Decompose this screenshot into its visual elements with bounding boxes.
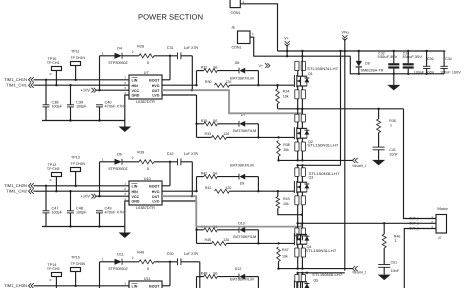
svg-text:LIN: LIN bbox=[132, 78, 138, 82]
pin LVG wire bbox=[162, 94, 197, 96]
svg-text:TIM1_CH1: TIM1_CH1 bbox=[6, 83, 28, 88]
svg-text:TP CH2N: TP CH2N bbox=[71, 162, 86, 166]
wire LVG2 down bbox=[196, 201, 198, 243]
wire V+ rail (top) bbox=[278, 50, 446, 52]
wire loop right vertical bbox=[257, 230, 259, 244]
transistor Q1 package pins (drain) bbox=[294, 61, 296, 70]
svg-text:VshuntH_1: VshuntH_1 bbox=[352, 164, 366, 168]
svg-text:1: 1 bbox=[252, 32, 254, 36]
svg-text:C30: C30 bbox=[427, 57, 433, 61]
wire OUT net phase 1 (highlighted) bbox=[162, 90, 302, 113]
svg-text:100pF: 100pF bbox=[52, 211, 63, 215]
svg-text:TIM1_CH3N: TIM1_CH3N bbox=[4, 283, 27, 288]
svg-text:100pF: 100pF bbox=[76, 105, 87, 109]
resistor R46 1 (snubber) bbox=[383, 223, 385, 234]
resistor R32 56 (loop branch) bbox=[197, 70, 204, 72]
svg-text:GND: GND bbox=[132, 94, 140, 98]
resistor R28 0 bbox=[139, 54, 154, 58]
wire phase 1 output to motor bbox=[404, 109, 437, 219]
svg-text:+10V: +10V bbox=[81, 88, 91, 93]
svg-text:TP CH1: TP CH1 bbox=[47, 61, 60, 65]
svg-text:R32: R32 bbox=[201, 66, 208, 70]
wire V+ feed down to phase2 drain bus bbox=[340, 51, 342, 165]
svg-text:OUT_3: OUT_3 bbox=[409, 227, 419, 231]
svg-text:D10: D10 bbox=[238, 221, 245, 225]
wire shunt bus 1 (VshuntH_1) bbox=[278, 159, 353, 161]
transistor Q1 package pins (source) bbox=[294, 90, 296, 99]
svg-text:1uF X7R: 1uF X7R bbox=[184, 46, 199, 50]
svg-text:HVG: HVG bbox=[152, 190, 160, 194]
svg-text:C61: C61 bbox=[391, 261, 398, 265]
svg-text:R41: R41 bbox=[205, 186, 212, 190]
svg-text:GND: GND bbox=[132, 200, 140, 204]
svg-text:R46: R46 bbox=[394, 235, 401, 239]
wire loop left vertical bbox=[196, 71, 198, 86]
svg-text:STL150N3LLH7: STL150N3LLH7 bbox=[307, 67, 338, 71]
wire bootstrap cap to OUT node bbox=[191, 162, 193, 196]
wire loop right vertical bbox=[257, 124, 259, 138]
wire Q3 source to switch 2 (R43 joins) bbox=[301, 205, 303, 224]
svg-text:1: 1 bbox=[102, 258, 104, 262]
capacitor C61 10nF bbox=[383, 248, 385, 265]
svg-text:VshuntH_2: VshuntH_2 bbox=[352, 270, 366, 274]
resistor R44 56 bbox=[197, 229, 204, 231]
svg-text:STL150N3LLH7: STL150N3LLH7 bbox=[307, 144, 338, 148]
transistor Q5 package pins (drain) bbox=[294, 275, 296, 282]
capacitor C41 10nF bbox=[378, 133, 380, 148]
resistor R47 10k (Q4 gate pulldown) bbox=[277, 247, 281, 262]
svg-text:1: 1 bbox=[395, 239, 397, 243]
svg-text:TP15: TP15 bbox=[71, 255, 80, 259]
capacitor C50 1uF X7R bbox=[177, 258, 179, 265]
svg-text:BOOT: BOOT bbox=[149, 284, 160, 288]
pin BOOT stub bbox=[162, 79, 170, 81]
resistor R42 56 (loop branch) bbox=[197, 176, 204, 178]
diode D6 SMBJ26A-TR (TVS) bbox=[358, 51, 360, 61]
wire to BOOT pin bbox=[169, 262, 171, 286]
svg-text:BAT30KFILM: BAT30KFILM bbox=[233, 235, 256, 239]
resistor R38 10k (Q2 gate pulldown) bbox=[277, 141, 281, 157]
junction TP13 to TIM1_CH2N bbox=[74, 185, 76, 187]
svg-text:STPS0560Z: STPS0560Z bbox=[108, 267, 128, 271]
svg-text:100pF: 100pF bbox=[52, 105, 63, 109]
svg-text:R39: R39 bbox=[137, 151, 144, 155]
wire LVG2 gate to Q4 bbox=[227, 242, 295, 244]
junction TP12 to TIM1_CH2 bbox=[55, 190, 57, 192]
capacitor C39 100pF bbox=[70, 85, 72, 105]
svg-text:R34: R34 bbox=[283, 89, 290, 93]
svg-text:V+: V+ bbox=[284, 36, 289, 40]
svg-text:D12: D12 bbox=[235, 267, 242, 271]
wire TIM1_CH3N bbox=[34, 285, 130, 287]
svg-text:10nF: 10nF bbox=[391, 269, 400, 273]
svg-text:OUT_2: OUT_2 bbox=[409, 221, 419, 225]
svg-text:BAT30KFILM: BAT30KFILM bbox=[230, 164, 254, 168]
wire phase 3 output to motor bbox=[404, 229, 436, 288]
resistor R45 120 bbox=[197, 242, 212, 244]
diode D5 STPS0560Z bbox=[100, 161, 115, 163]
capacitor C48 100pF bbox=[70, 191, 72, 211]
svg-text:R45: R45 bbox=[205, 238, 212, 242]
junction +10V / C riser bbox=[98, 89, 100, 91]
svg-text:STL150N3LLH7: STL150N3LLH7 bbox=[305, 249, 336, 253]
resistor R43 10k (Q3 gate pulldown) bbox=[276, 197, 280, 209]
wire +10V to VCC bbox=[96, 89, 129, 91]
node VshuntH_1 connector bbox=[353, 158, 356, 163]
svg-text:OUT_1: OUT_1 bbox=[409, 217, 419, 221]
wire Q3 drain bus bbox=[297, 164, 341, 166]
svg-text:R40: R40 bbox=[137, 251, 144, 255]
svg-text:R42: R42 bbox=[201, 172, 208, 176]
svg-text:CON1: CON1 bbox=[231, 11, 241, 15]
wire loop right vertical bbox=[257, 71, 259, 86]
diode D9 BAT30KFILM bbox=[239, 174, 245, 180]
ground bus bbox=[42, 120, 125, 122]
wire R43 bottom to switch node 2 bbox=[278, 208, 302, 215]
svg-text:100nF: 100nF bbox=[440, 70, 451, 74]
wire TIM1_CH1 bbox=[34, 84, 130, 86]
svg-text:C34: C34 bbox=[445, 57, 451, 61]
resistor R39 0 bbox=[139, 160, 154, 164]
svg-text:1uF X7R: 1uF X7R bbox=[184, 152, 199, 156]
wire bootstrap cap to OUT node bbox=[199, 262, 201, 288]
junction BOOT tap bbox=[169, 55, 171, 57]
pin BOOT stub bbox=[162, 185, 170, 187]
svg-text:Q5: Q5 bbox=[313, 278, 318, 282]
pin BOOT stub bbox=[162, 285, 170, 287]
svg-text:C50: C50 bbox=[167, 252, 174, 256]
resistor R41 120 (straight branch) bbox=[215, 189, 230, 193]
resistor R36 1 (snubber) bbox=[378, 109, 380, 119]
wire switch node 1 bbox=[278, 108, 404, 110]
wire riser +10V to bootstrap diode bbox=[99, 162, 101, 196]
wire TIM1_CH2 bbox=[34, 190, 130, 192]
wire HVG1 gate to Q1 bbox=[230, 84, 295, 86]
svg-text:10k: 10k bbox=[283, 202, 289, 206]
capacitor C40 470nF X7R bbox=[96, 104, 103, 106]
wire HVG2 gate to Q3 bbox=[230, 190, 295, 192]
svg-text:R28: R28 bbox=[137, 45, 144, 49]
svg-text:D8: D8 bbox=[235, 61, 240, 65]
svg-text:TP CH2: TP CH2 bbox=[47, 167, 60, 171]
svg-text:VCC: VCC bbox=[132, 89, 140, 93]
svg-text:Q3: Q3 bbox=[309, 176, 314, 180]
wire loop left vertical (cut) bbox=[196, 277, 198, 288]
pin HVG wire bbox=[162, 84, 197, 86]
capacitor C31 1uF X7R bbox=[177, 52, 179, 59]
pin HVG wire bbox=[162, 190, 197, 192]
ground (snubber 1) bbox=[378, 150, 380, 160]
svg-text:V+: V+ bbox=[259, 64, 264, 68]
wire GND pin down to ground bus bbox=[125, 201, 129, 227]
diode D12 BAT30KFILM bbox=[239, 274, 245, 280]
svg-text:TIM1_CH1N: TIM1_CH1N bbox=[4, 77, 27, 82]
svg-text:2: 2 bbox=[132, 50, 134, 54]
svg-text:R30: R30 bbox=[205, 80, 212, 84]
svg-text:D4: D4 bbox=[117, 46, 122, 50]
svg-text:10k: 10k bbox=[282, 255, 288, 259]
svg-text:STL150N3LLH7: STL150N3LLH7 bbox=[309, 172, 340, 176]
svg-text:10nF: 10nF bbox=[389, 152, 398, 156]
svg-text:C41: C41 bbox=[389, 148, 396, 152]
junction TP11 to TIM1_CH1N bbox=[74, 79, 76, 81]
ground bbox=[119, 127, 132, 133]
transistor Q2 STL150N3LLH7 low side phase 1 bbox=[293, 127, 295, 139]
ground bus bbox=[42, 226, 125, 228]
capacitor C38 100pF bbox=[45, 80, 47, 105]
svg-text:LIN: LIN bbox=[132, 184, 138, 188]
junction R43 top bbox=[277, 190, 279, 192]
svg-text:120: 120 bbox=[223, 238, 229, 242]
svg-text:1: 1 bbox=[102, 52, 104, 56]
svg-text:TIM1_CH2: TIM1_CH2 bbox=[6, 189, 28, 194]
capacitor C47 100pF bbox=[45, 186, 47, 211]
junction C42 to OUT bbox=[191, 195, 193, 197]
junction R47 top bbox=[277, 242, 279, 244]
svg-text:TP CH3: TP CH3 bbox=[47, 267, 60, 271]
svg-text:STPS0560Z: STPS0560Z bbox=[108, 61, 128, 65]
wire Q1 drain riser bbox=[301, 51, 303, 61]
wire switch node 2 bbox=[297, 222, 437, 224]
svg-text:L6387DTR: L6387DTR bbox=[136, 100, 155, 104]
svg-text:D9: D9 bbox=[240, 181, 245, 185]
wire VPxx / V+ feed down to phase3 drain bus bbox=[344, 39, 346, 271]
ground (cap bank) bbox=[393, 74, 395, 85]
junction +10V / C riser bbox=[98, 195, 100, 197]
svg-text:C31: C31 bbox=[167, 46, 174, 50]
wire +10V to VCC bbox=[96, 195, 129, 197]
wire Q5 drain bus bbox=[297, 272, 345, 274]
svg-text:R33: R33 bbox=[205, 132, 212, 136]
svg-text:10k: 10k bbox=[283, 94, 289, 98]
svg-text:R43: R43 bbox=[283, 197, 290, 201]
wire CON1 to V+ rail bbox=[240, 4, 277, 51]
capacitor C42 1uF X7R bbox=[177, 158, 179, 165]
junction R38 top bbox=[277, 136, 279, 138]
wire J6 to ground rail bbox=[250, 37, 350, 56]
resistor R33 120 bbox=[197, 136, 212, 138]
svg-text:56: 56 bbox=[213, 172, 217, 176]
junction TP15 to TIM1_CH3N bbox=[74, 285, 76, 287]
svg-text:LIN: LIN bbox=[132, 284, 138, 288]
svg-text:470nF X7R: 470nF X7R bbox=[105, 211, 125, 215]
svg-text:120: 120 bbox=[223, 132, 229, 136]
svg-text:56: 56 bbox=[213, 66, 217, 70]
wire ground rail to cap bus bbox=[350, 56, 444, 74]
svg-text:U7: U7 bbox=[144, 71, 149, 75]
svg-text:100pF: 100pF bbox=[76, 211, 87, 215]
svg-text:56: 56 bbox=[213, 272, 217, 276]
transistor Q3 package pins (drain) bbox=[294, 168, 296, 177]
svg-text:2: 2 bbox=[132, 156, 134, 160]
svg-text:STL150N3LLH7: STL150N3LLH7 bbox=[312, 273, 342, 277]
pin LVG wire bbox=[162, 200, 197, 202]
svg-text:J6: J6 bbox=[231, 25, 235, 29]
svg-text:1: 1 bbox=[390, 123, 392, 127]
svg-text:TP CH3N: TP CH3N bbox=[71, 262, 86, 266]
svg-text:VPxx: VPxx bbox=[342, 30, 350, 34]
svg-text:HIN: HIN bbox=[132, 190, 139, 194]
svg-text:330uF,35V: 330uF,35V bbox=[402, 55, 423, 59]
transistor Q1 STL150N3LLH7 high side phase 1 bbox=[293, 75, 295, 87]
svg-text:POWER SECTION: POWER SECTION bbox=[138, 13, 203, 22]
op-amp U driver U7 L6387DTR bbox=[129, 75, 162, 99]
junction BOOT tap bbox=[169, 261, 171, 263]
svg-text:Motor: Motor bbox=[437, 207, 448, 211]
svg-text:BAT30KFILM: BAT30KFILM bbox=[230, 277, 254, 281]
svg-text:TIM1_CH2N: TIM1_CH2N bbox=[4, 183, 27, 188]
svg-text:+10V: +10V bbox=[81, 194, 91, 199]
diode D10 BAT30KFILM bbox=[239, 227, 245, 233]
svg-text:120: 120 bbox=[225, 186, 231, 190]
svg-text:R38: R38 bbox=[283, 143, 290, 147]
diode D7 BAT30KFILM bbox=[239, 121, 245, 127]
transistor Q3 package pins (source) bbox=[294, 196, 296, 205]
svg-text:Q1: Q1 bbox=[308, 72, 313, 76]
svg-text:100V: 100V bbox=[452, 70, 462, 74]
transistor Q5 (partial, cut at bottom) bbox=[293, 281, 295, 288]
svg-text:VCC: VCC bbox=[132, 195, 140, 199]
svg-text:LVG: LVG bbox=[152, 94, 159, 98]
wire LVG1 down bbox=[196, 95, 198, 137]
junction R34 top bbox=[276, 84, 278, 86]
wire OUT net phase 2 (highlighted) bbox=[162, 196, 302, 226]
svg-text:470nF X7R: 470nF X7R bbox=[105, 105, 125, 109]
wire R34 to switch node bbox=[277, 104, 279, 109]
svg-text:100nF: 100nF bbox=[414, 70, 425, 74]
ground (snubber 2) bbox=[383, 267, 385, 274]
ground bbox=[119, 233, 132, 239]
svg-text:D6: D6 bbox=[365, 62, 370, 66]
svg-text:BAT30KFILM: BAT30KFILM bbox=[230, 76, 254, 80]
connector J5 CON1 (V+) bbox=[230, 0, 240, 8]
svg-text:CON1: CON1 bbox=[232, 46, 242, 50]
wire loop right vertical (cut) bbox=[257, 277, 259, 288]
resistor R40 0 bbox=[139, 260, 154, 264]
svg-text:R35: R35 bbox=[201, 119, 208, 123]
svg-text:TP13: TP13 bbox=[71, 155, 80, 159]
resistor R35 56 bbox=[197, 123, 204, 125]
junction C31 to OUT bbox=[191, 89, 193, 91]
svg-text:56: 56 bbox=[213, 119, 217, 123]
svg-text:HIN: HIN bbox=[132, 84, 139, 88]
svg-text:LVG: LVG bbox=[152, 200, 159, 204]
resistor R30 120 (straight branch) bbox=[215, 83, 230, 87]
svg-text:BOOT: BOOT bbox=[149, 78, 160, 82]
svg-text:BAT30KFILM: BAT30KFILM bbox=[233, 129, 256, 133]
svg-text:U11: U11 bbox=[144, 277, 151, 281]
op-amp U driver U11 L6387DTR bbox=[129, 281, 162, 288]
svg-text:U10: U10 bbox=[144, 177, 151, 181]
svg-text:330uF,35V: 330uF,35V bbox=[377, 55, 398, 59]
svg-text:SMBJ26A-TR: SMBJ26A-TR bbox=[361, 69, 384, 73]
transistor Q2 package pins (source) bbox=[294, 142, 296, 151]
svg-text:1uF X7R: 1uF X7R bbox=[184, 252, 199, 256]
wire loop left vertical bbox=[196, 177, 198, 192]
diode D4 STPS0560Z bbox=[100, 55, 115, 57]
diode D11 STPS0560Z bbox=[100, 261, 115, 263]
svg-text:10k: 10k bbox=[283, 148, 289, 152]
wire bootstrap cap to OUT node bbox=[191, 56, 193, 90]
junction TP10 to TIM1_CH1 bbox=[55, 84, 57, 86]
junction BOOT tap bbox=[169, 161, 171, 163]
svg-text:R48: R48 bbox=[201, 272, 208, 276]
svg-text:TP11: TP11 bbox=[71, 49, 80, 53]
svg-text:100V: 100V bbox=[425, 70, 435, 74]
op-amp U driver U10 L6387DTR bbox=[129, 181, 162, 205]
transistor Q4 package pins (source) bbox=[294, 248, 296, 257]
svg-text:BOOT: BOOT bbox=[149, 184, 160, 188]
transistor Q2 package pins (drain) bbox=[294, 114, 296, 122]
wire shunt bus 2 (VshuntH_2) bbox=[278, 268, 353, 270]
resistor R48 56 (ch3 loop) bbox=[197, 276, 204, 278]
svg-text:J7: J7 bbox=[438, 236, 442, 240]
svg-text:C42: C42 bbox=[167, 152, 174, 156]
svg-text:TP CH1N: TP CH1N bbox=[71, 56, 86, 60]
wire loop right vertical bbox=[257, 177, 259, 192]
svg-text:R47: R47 bbox=[282, 248, 289, 252]
svg-text:OUT: OUT bbox=[152, 195, 160, 199]
wire to BOOT pin bbox=[169, 162, 171, 186]
svg-text:HVG: HVG bbox=[152, 84, 160, 88]
svg-text:1: 1 bbox=[102, 158, 104, 162]
transistor Q4 package pins (drain) bbox=[294, 228, 296, 236]
wire LVG1 gate to Q2 bbox=[227, 136, 295, 138]
wire riser +10V to bootstrap diode bbox=[99, 56, 101, 90]
svg-text:STPS0560Z: STPS0560Z bbox=[108, 167, 128, 171]
transistor Q4 STL150N3LLH7 low side phase 2 bbox=[293, 233, 295, 245]
svg-text:120: 120 bbox=[225, 80, 231, 84]
svg-text:L6387DTR: L6387DTR bbox=[136, 206, 155, 210]
svg-text:D5: D5 bbox=[117, 152, 122, 156]
wire GND pin down to ground bus bbox=[125, 95, 129, 121]
svg-text:D11: D11 bbox=[117, 252, 124, 256]
node VshuntH_2 connector bbox=[353, 266, 356, 271]
svg-text:OUT: OUT bbox=[152, 89, 160, 93]
svg-text:0: 0 bbox=[147, 61, 149, 65]
capacitor C49 470nF X7R bbox=[96, 210, 103, 212]
resistor R34 10k (Q1 gate pulldown) bbox=[276, 89, 280, 104]
svg-text:0: 0 bbox=[147, 267, 149, 271]
svg-text:2: 2 bbox=[132, 256, 134, 260]
diode D8 BAT30KFILM bbox=[239, 68, 245, 74]
wire to BOOT pin bbox=[169, 56, 171, 80]
svg-text:0: 0 bbox=[147, 167, 149, 171]
wire TIM1_CH2N bbox=[34, 185, 130, 187]
wire TIM1_CH1N bbox=[34, 79, 130, 81]
wire riser +10V to bootstrap diode bbox=[99, 262, 101, 288]
transistor Q3 STL150N3LLH7 high side phase 2 bbox=[293, 181, 295, 193]
